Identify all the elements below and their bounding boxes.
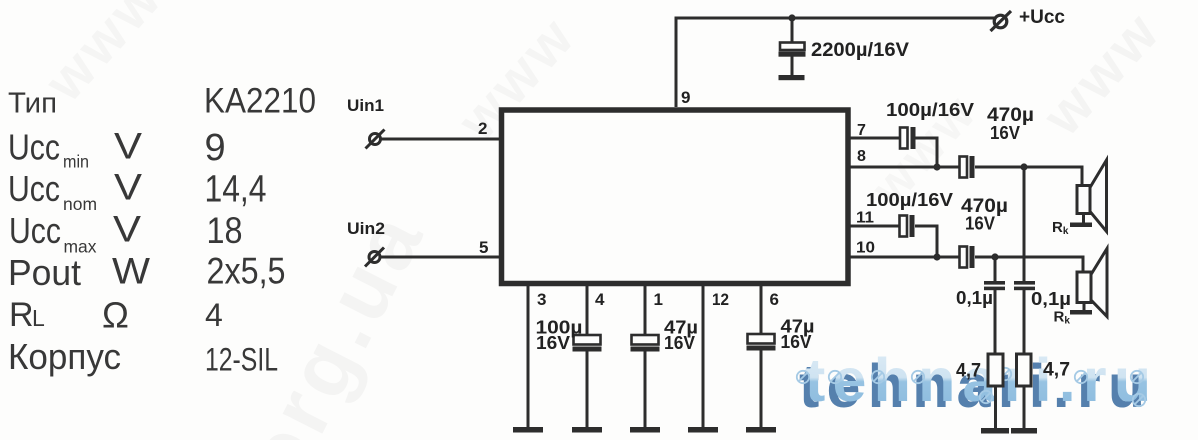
svg-text:0,1µ: 0,1µ (1031, 289, 1071, 309)
svg-text:R: R (9, 296, 34, 334)
wire capacitor C9 to resistor R1 (994, 290, 997, 354)
faint background watermark www top-right (1029, 0, 1173, 147)
capacitor C8 47u/16V (pin6) (747, 334, 776, 351)
svg-text:7: 7 (857, 122, 866, 139)
wire speaker SP2 bottom stub (1083, 302, 1086, 311)
svg-text:Rk: Rk (1052, 219, 1069, 237)
svg-text:16V: 16V (965, 214, 995, 234)
wire capacitor C5 to speaker SP2 (975, 257, 1083, 273)
wire pin 8 to capacitor C3 (849, 166, 960, 169)
svg-text:4: 4 (595, 290, 605, 309)
svg-text:Ucc: Ucc (8, 168, 60, 209)
wire resistor R2 to ground (1023, 386, 1026, 429)
svg-text:Ucc: Ucc (8, 127, 60, 168)
capacitor C10 0,1u (1014, 281, 1035, 290)
ground pin6 (746, 427, 776, 433)
svg-text:V: V (114, 126, 142, 167)
svg-text:18: 18 (207, 210, 243, 251)
capacitor C1 2200u/16V (779, 43, 806, 57)
svg-text:0,1µ: 0,1µ (956, 288, 993, 308)
ground resistor R2 (1011, 428, 1037, 434)
svg-text:W: W (112, 251, 150, 292)
resistor R2 4,7 (1017, 354, 1032, 386)
svg-text:16V: 16V (536, 333, 570, 353)
speaker SP2 terminal bar (1070, 310, 1092, 315)
wire resistor R1 to ground (994, 386, 997, 429)
faint background watermark org.ua (225, 194, 444, 440)
svg-text:Тип: Тип (8, 88, 57, 120)
wire capacitor C4 to node pin10 (915, 226, 937, 257)
svg-text:4: 4 (205, 297, 223, 333)
faint background watermark www top-left (31, 0, 175, 113)
op-amp IC KA2210 body (502, 110, 849, 284)
speaker SP2 (1077, 249, 1107, 317)
svg-text:Rk: Rk (1054, 309, 1071, 327)
ground pin1 (630, 427, 660, 433)
ground for C1 (779, 75, 805, 80)
svg-text:V: V (113, 209, 141, 250)
svg-text:L: L (32, 305, 45, 331)
svg-text:16V: 16V (664, 333, 695, 353)
junction dot node A (991, 253, 998, 260)
svg-text:6: 6 (770, 290, 779, 309)
wire node A to capacitor C9 (994, 257, 997, 282)
svg-text:14,4: 14,4 (205, 169, 267, 211)
ground pin4 (572, 427, 602, 433)
svg-text:12-SIL: 12-SIL (205, 342, 278, 378)
svg-text:2x5,5: 2x5,5 (207, 251, 286, 292)
capacitor C3 470u/16V (pin8) (960, 156, 975, 178)
svg-text:3: 3 (537, 290, 546, 309)
terminal Uin2 (365, 248, 384, 267)
speaker SP1 (1077, 160, 1107, 232)
svg-text:9: 9 (681, 88, 690, 107)
svg-text:min: min (63, 152, 89, 172)
svg-text:V: V (114, 167, 142, 208)
svg-text:+Ucc: +Ucc (1019, 7, 1065, 28)
svg-text:8: 8 (857, 148, 866, 165)
wire pin 7 to capacitor C2 (849, 137, 900, 140)
svg-text:16V: 16V (781, 332, 812, 352)
wire pin 9 to +Ucc rail (676, 18, 995, 107)
svg-text:4,7: 4,7 (1043, 360, 1070, 381)
svg-text:9: 9 (205, 127, 226, 169)
svg-text:Uin1: Uin1 (347, 97, 384, 115)
svg-text:Ucc: Ucc (9, 210, 61, 251)
wire node B to capacitor C10 (1023, 167, 1026, 282)
terminal +Ucc (991, 11, 1012, 31)
svg-text:5: 5 (479, 238, 488, 257)
svg-text:12: 12 (712, 290, 729, 309)
wire speaker SP1 bottom stub (1082, 214, 1085, 224)
svg-text:Uin2: Uin2 (347, 220, 385, 238)
svg-text:2: 2 (478, 119, 487, 138)
tehnari.ru watermark shadow layer (799, 356, 1152, 417)
ground resistor R1 (981, 428, 1009, 434)
faint background watermark www mid-right (860, 82, 989, 216)
svg-text:100µ/16V: 100µ/16V (866, 190, 953, 210)
wire pin 10 to capacitor C5 (849, 256, 960, 259)
svg-text:4,7: 4,7 (956, 361, 981, 382)
junction dot top rail (788, 14, 795, 21)
wire pin 11 to capacitor C4 (849, 225, 900, 228)
svg-text:2200µ/16V: 2200µ/16V (811, 40, 909, 61)
wire capacitor C1 bottom lead (791, 56, 794, 76)
wire pin 1 to capacitor C7 (644, 286, 647, 428)
wire input 1 to pin 2 (381, 138, 501, 141)
speaker SP1 terminal bar (1070, 223, 1092, 228)
resistor R1 4,7 (988, 354, 1003, 386)
svg-text:100µ/16V: 100µ/16V (886, 100, 974, 120)
capacitor C4 100u/16V (pin11) (900, 215, 915, 237)
terminal Uin1 (366, 130, 385, 149)
faint background watermark www top-middle (444, 3, 588, 153)
ground pin3 (513, 427, 543, 433)
wire pin 4 to capacitor C6 (586, 286, 589, 428)
tehnari.ru watermark main layer (805, 350, 1158, 411)
capacitor C6 100u/16V (pin4) (573, 335, 602, 352)
junction dot node B (1020, 163, 1027, 170)
wire capacitor C1 top lead (791, 18, 794, 44)
wire capacitor C10 to resistor R2 (1023, 290, 1026, 354)
svg-text:11: 11 (856, 210, 874, 227)
svg-text:1: 1 (654, 290, 663, 309)
junction dot node pin8 left (933, 163, 940, 170)
capacitor C5 470u/16V (pin10) (960, 246, 975, 268)
capacitor C9 0,1u (984, 281, 1005, 290)
wire pin 3 to ground (527, 286, 530, 428)
junction dot node pin10 left (933, 253, 940, 260)
svg-text:nom: nom (63, 194, 97, 214)
wire pin 6 to capacitor C8 (760, 286, 763, 428)
svg-text:Ω: Ω (102, 295, 129, 336)
svg-text:16V: 16V (990, 123, 1020, 143)
svg-text:Pout: Pout (8, 252, 81, 293)
svg-text:10: 10 (856, 240, 875, 257)
wire capacitor C2 to node pin8 (916, 138, 938, 167)
wire input 2 to pin 5 (380, 256, 500, 259)
ground pin12 (688, 427, 718, 433)
wire capacitor C3 to speaker SP1 (975, 167, 1082, 186)
svg-text:KA2210: KA2210 (204, 82, 316, 121)
wire pin 12 to ground (702, 286, 705, 428)
capacitor C7 47u/16V (pin1) (631, 335, 660, 352)
capacitor C2 100u/16V (pin7) (900, 127, 916, 149)
svg-text:Корпус: Корпус (8, 336, 121, 377)
